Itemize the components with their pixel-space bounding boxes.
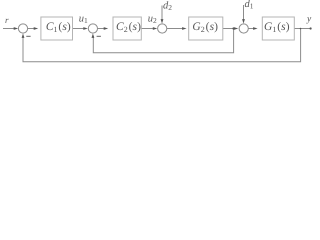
- svg-text:G2(s): G2(s): [192, 21, 218, 34]
- svg-text:C1(s): C1(s): [46, 21, 71, 34]
- svg-text:d1: d1: [245, 0, 254, 11]
- svg-text:r: r: [5, 15, 9, 25]
- svg-text:G1(s): G1(s): [264, 21, 290, 34]
- svg-text:d2: d2: [163, 1, 172, 13]
- svg-text:u1: u1: [79, 14, 88, 25]
- svg-text:y: y: [306, 14, 312, 24]
- svg-text:C2(s): C2(s): [116, 21, 141, 34]
- svg-text:u2: u2: [148, 14, 157, 25]
